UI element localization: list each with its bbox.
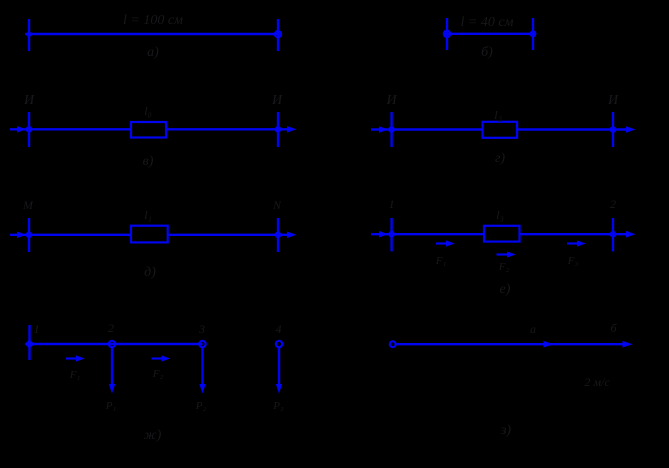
svg-text:И: И — [386, 93, 398, 108]
svg-text:P₁: P₁ — [105, 400, 117, 412]
bar line — [30, 343, 203, 345]
svg-text:F₁: F₁ — [69, 369, 81, 381]
start ring — [390, 341, 396, 347]
wire left — [371, 233, 484, 235]
arrow out of right node — [626, 231, 636, 238]
tick right — [277, 218, 279, 252]
down arrow at node3 — [199, 348, 205, 394]
extension tick right — [277, 19, 279, 51]
extension tick right — [532, 18, 534, 50]
arrow out of right node — [626, 126, 636, 133]
svg-text:l₀: l₀ — [144, 104, 152, 118]
small right arrow 2 — [152, 355, 171, 361]
svg-text:И: И — [607, 93, 619, 108]
node right (dot) — [530, 30, 537, 37]
wire right — [517, 128, 630, 130]
wire right — [168, 234, 291, 236]
down arrow at node2 — [109, 348, 115, 394]
svg-text:д): д) — [144, 265, 156, 280]
node left (filled diamond) — [25, 31, 33, 37]
node 4 ring — [276, 341, 282, 347]
svg-text:б: б — [610, 321, 617, 335]
wire left — [371, 128, 483, 130]
spring box — [131, 122, 166, 138]
svg-text:P₂: P₂ — [195, 400, 207, 412]
svg-text:2 м/с: 2 м/с — [584, 375, 610, 389]
arrow out of M — [287, 126, 297, 133]
down arrow at node4 — [276, 348, 282, 394]
tick left — [28, 218, 30, 252]
extension tick left — [446, 18, 448, 50]
force arrow F1 — [436, 240, 455, 246]
tick left — [390, 218, 392, 251]
tick K — [28, 112, 30, 147]
node left (ring) — [444, 31, 450, 37]
svg-text:2: 2 — [610, 197, 616, 211]
svg-text:И: И — [271, 93, 283, 108]
force arrow F2 — [497, 251, 516, 257]
dimension line — [25, 33, 281, 35]
left tick — [28, 325, 30, 360]
node right — [275, 232, 282, 239]
spring box — [483, 122, 517, 138]
svg-text:3: 3 — [198, 322, 205, 336]
spring box — [131, 226, 168, 243]
svg-text:з): з) — [500, 423, 511, 438]
node left — [388, 126, 395, 133]
svg-text:P₃: P₃ — [272, 400, 284, 412]
svg-text:г): г) — [495, 151, 505, 166]
small right arrow 1 — [66, 355, 85, 361]
node 2 ring — [109, 341, 115, 347]
svg-text:F₂: F₂ — [498, 261, 510, 273]
node left — [388, 231, 395, 238]
wire right — [520, 233, 631, 235]
node 3 ring — [199, 341, 205, 347]
spring box — [484, 226, 520, 242]
svg-text:N: N — [272, 198, 282, 212]
svg-text:б): б) — [481, 45, 493, 60]
tick M — [277, 112, 279, 147]
ray line — [395, 343, 628, 345]
tick right — [612, 218, 614, 251]
svg-text:М: М — [22, 198, 34, 212]
node right (open ring) — [275, 31, 281, 37]
arrow into left node — [379, 126, 389, 133]
node M — [275, 126, 282, 133]
node right — [610, 231, 617, 238]
svg-text:F₁: F₁ — [435, 255, 447, 267]
arrow into left node — [379, 231, 389, 238]
svg-text:1: 1 — [34, 322, 40, 336]
node left — [26, 232, 33, 239]
svg-text:l₃: l₃ — [496, 208, 504, 222]
svg-text:l₂: l₂ — [494, 108, 502, 122]
node 1 diamond — [25, 340, 35, 349]
svg-text:l₁: l₁ — [144, 208, 152, 222]
arrow into left node — [17, 232, 27, 239]
node right — [610, 126, 617, 133]
svg-text:2: 2 — [108, 321, 114, 335]
svg-text:1: 1 — [389, 197, 395, 211]
wire left — [10, 234, 131, 236]
wire left — [10, 128, 131, 130]
arrow out of right node — [287, 232, 297, 239]
tick right — [612, 112, 614, 147]
node K — [26, 126, 33, 133]
tick left — [390, 112, 392, 147]
arrow into K — [17, 126, 27, 133]
wire right — [166, 128, 291, 130]
svg-text:а): а) — [147, 45, 159, 60]
svg-text:в): в) — [143, 154, 154, 169]
force arrow F3 — [567, 240, 586, 246]
svg-text:l = 40 см: l = 40 см — [461, 15, 514, 30]
svg-text:F₂: F₂ — [152, 368, 164, 380]
svg-text:F₃: F₃ — [567, 255, 579, 267]
svg-text:е): е) — [500, 282, 511, 297]
extension tick left — [28, 19, 30, 51]
svg-text:ж): ж) — [144, 428, 162, 443]
svg-text:И: И — [23, 93, 35, 108]
dimension line — [444, 33, 536, 35]
svg-text:а: а — [530, 322, 536, 336]
svg-text:l = 100 см: l = 100 см — [123, 13, 183, 28]
mid arrowhead — [544, 341, 554, 348]
svg-text:4: 4 — [276, 322, 282, 336]
end arrowhead — [623, 341, 633, 348]
